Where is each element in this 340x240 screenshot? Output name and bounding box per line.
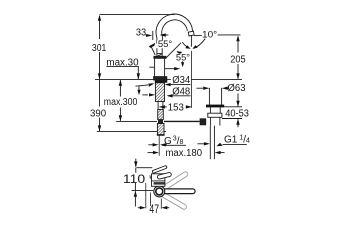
hatched block B — [157, 124, 164, 136]
spout outer arc — [156, 14, 193, 38]
outlet vertical line — [190, 36, 192, 47]
max.300 chain — [119, 80, 121, 96]
outlet pipe — [209, 126, 211, 160]
svg-text:max.30: max.30 — [106, 57, 139, 68]
mini body — [152, 174, 165, 187]
second 55 ray horizontal — [165, 68, 176, 70]
rod coupler — [158, 119, 163, 123]
110 dim — [135, 159, 137, 167]
lever open ray — [151, 47, 155, 55]
G3/8 underline + arrows — [162, 144, 186, 146]
47 dim — [145, 183, 147, 208]
dia48 leader — [168, 95, 191, 97]
horizontal capsule spout — [160, 189, 195, 194]
base ring — [154, 77, 167, 80]
10 deg wedge arcs under tip — [182, 42, 189, 48]
max300 bottom ref / rod left part — [116, 120, 157, 122]
waste top — [208, 88, 210, 106]
rod clamp — [200, 119, 206, 125]
svg-text:40-53: 40-53 — [225, 109, 249, 120]
max180 dim — [148, 152, 154, 154]
dia63 arrows — [197, 87, 204, 89]
nut — [208, 113, 222, 117]
neck / closed lever — [156, 48, 158, 56]
plan body circle — [154, 186, 165, 197]
40-53 chain arrows — [237, 94, 239, 107]
40-53 refs — [224, 106, 242, 108]
33 dim — [146, 34, 149, 36]
dia34 leader — [166, 84, 190, 86]
10 deg leader — [194, 35, 202, 37]
svg-text:10°: 10° — [202, 30, 218, 40]
svg-text:33: 33 — [136, 27, 147, 38]
top reference line — [100, 14, 175, 16]
svg-text:Ø48: Ø48 — [172, 87, 190, 98]
pop-up rod — [164, 120, 200, 122]
hose neck — [157, 102, 159, 110]
svg-text:Ø63: Ø63 — [228, 83, 246, 94]
svg-text:55°: 55° — [176, 53, 190, 63]
svg-text:153: 153 — [168, 103, 184, 114]
153 dim — [160, 106, 167, 108]
hatched block A — [158, 110, 164, 120]
aerator — [188, 31, 194, 36]
mini lever bar — [152, 165, 167, 173]
hose ext line — [158, 135, 160, 155]
dia34 left arrow — [136, 85, 149, 86]
max.30 underline + arrow — [106, 65, 138, 67]
jog arrow — [138, 86, 140, 90]
first 55 arc arrowhead — [149, 43, 156, 48]
svg-text:301: 301 — [92, 43, 107, 54]
waste mid body — [209, 107, 211, 113]
svg-text:55°: 55° — [158, 39, 173, 49]
svg-text:205: 205 — [230, 55, 246, 66]
counter line — [95, 79, 242, 81]
svg-text:max.180: max.180 — [166, 148, 203, 159]
second 55 arc with arrowheads — [177, 52, 182, 63]
lever tip closed outline — [154, 54, 161, 57]
body — [154, 58, 156, 79]
205 chain — [237, 37, 239, 53]
faint diagonals — [158, 171, 189, 210]
dia48 left arrow — [142, 94, 148, 96]
svg-text:110: 110 — [123, 174, 145, 186]
svg-text:max.300: max.300 — [104, 97, 138, 108]
svg-text:390: 390 — [90, 109, 107, 120]
second 55 ray up — [166, 43, 181, 59]
shank hatched — [155, 83, 164, 102]
svg-text:Ø34: Ø34 — [172, 75, 190, 86]
dim 301/390 vertical chain — [99, 16, 101, 39]
spout inner arc — [162, 20, 188, 37]
flange lip — [206, 105, 224, 108]
pivot oval — [157, 172, 172, 179]
G1 1/4 underline + arrow — [223, 143, 247, 145]
arrow to waste pipe left — [198, 143, 205, 145]
body cap — [154, 56, 166, 58]
390 bottom reference line — [97, 131, 166, 133]
label masks — [157, 41, 191, 84]
svg-text:47: 47 — [149, 204, 159, 216]
